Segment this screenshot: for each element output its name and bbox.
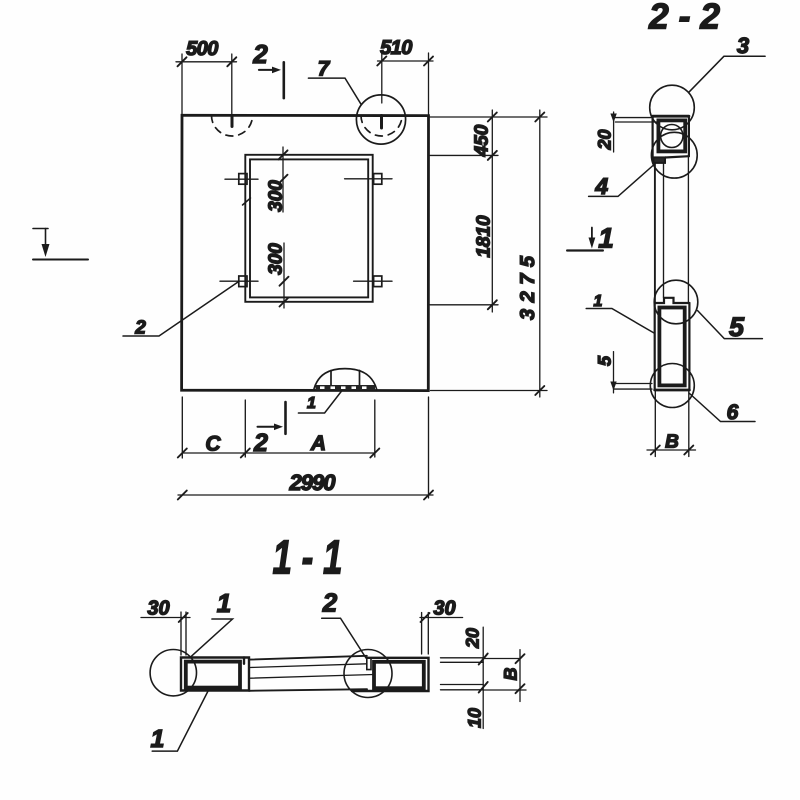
svg-text:B: B [501, 668, 521, 681]
svg-text:B: B [665, 431, 679, 452]
svg-text:3: 3 [737, 33, 749, 58]
label 5 with leader [698, 311, 763, 339]
dim 5 (section 2-2) [610, 352, 652, 393]
section marker 2 (top) [259, 62, 284, 98]
svg-text:1 - 1: 1 - 1 [273, 532, 343, 585]
dim 500 (top left) [176, 54, 237, 114]
label 2 (1-1) with leader [322, 618, 366, 658]
svg-text:500: 500 [186, 38, 218, 60]
svg-text:300: 300 [265, 243, 286, 275]
embed plate top-left [239, 174, 247, 185]
svg-text:4: 4 [594, 173, 608, 199]
svg-text:2: 2 [253, 429, 268, 457]
detail circle 7 [356, 95, 405, 144]
detail circle left end (1-1) [150, 650, 196, 696]
dim line B (1-1) [516, 650, 525, 702]
dim 30 left (1-1) [141, 612, 190, 655]
label 3 with leader [689, 56, 765, 92]
svg-text:5: 5 [729, 312, 745, 342]
detail circle 5 [654, 280, 698, 324]
detail circle 2 (1-1) [344, 650, 392, 698]
svg-text:1: 1 [307, 395, 316, 412]
svg-text:300: 300 [265, 180, 286, 212]
dim line 450/1810 [488, 110, 497, 312]
dim 300 top (opening) [279, 147, 288, 212]
dim 20 (section 2-2) [610, 112, 658, 152]
level mark symbol [33, 229, 88, 260]
extension pairs right (1-1) [441, 658, 527, 690]
centre line of embed top-right [345, 178, 392, 180]
label 1 bottom (1-1) with leader [152, 691, 208, 752]
section 1-1 right end box [352, 658, 429, 691]
embed plate top-right [374, 174, 382, 185]
svg-text:1: 1 [151, 725, 165, 753]
dim row C / A [178, 449, 379, 458]
svg-text:30: 30 [433, 597, 455, 619]
svg-text:1810: 1810 [474, 215, 495, 258]
detail circle 6 [650, 364, 694, 408]
break mark on opening left edge [243, 198, 251, 205]
svg-text:2: 2 [322, 588, 338, 618]
svg-text:510: 510 [380, 37, 412, 59]
svg-text:30: 30 [147, 597, 169, 619]
lifting loop right (dashed) [361, 116, 402, 137]
svg-text:2: 2 [134, 318, 146, 339]
section 2-2 top box (embed channel) [653, 116, 689, 163]
label 2 with leader (to embed) [123, 282, 238, 336]
label 1 with leader (2-2) [586, 309, 654, 333]
centre line of embed bottom-left [220, 280, 258, 282]
centre line of embed bottom-right [354, 280, 392, 282]
extension lines right side [430, 117, 547, 391]
svg-text:20: 20 [463, 628, 483, 649]
bottom extension lines [182, 397, 428, 498]
label 6 with leader [689, 393, 755, 422]
section marker 1 (in 2-2) [567, 228, 603, 251]
section marker 2 (bottom) [258, 402, 286, 434]
dim line 20/10 (1-1) [479, 627, 488, 728]
detail circle 4 [651, 132, 697, 178]
dim B (section 2-2) [647, 391, 696, 457]
svg-text:C: C [205, 432, 221, 455]
dim 2990 [178, 491, 433, 500]
centre line of embed top-left [225, 178, 258, 180]
label 4 with leader [589, 164, 655, 196]
svg-text:7: 7 [318, 57, 331, 80]
section 2-2 column faces [655, 158, 689, 304]
dim 30 right (1-1) [420, 613, 463, 655]
opening (inner rectangle, double line) [245, 155, 372, 302]
panel outline (plan view) [182, 115, 429, 390]
dim line 3275 [535, 110, 544, 397]
svg-text:10: 10 [465, 708, 485, 728]
svg-text:450: 450 [472, 124, 493, 157]
svg-text:1: 1 [598, 223, 614, 254]
dim 510 (top right) [377, 53, 433, 114]
label 1 with leader (bump) [298, 391, 342, 414]
drain bump at bottom edge [314, 369, 378, 391]
svg-text:1: 1 [217, 588, 231, 618]
embed plate bottom-right [374, 276, 382, 287]
lifting loop left (dashed) [212, 116, 253, 137]
svg-text:A: A [310, 432, 326, 455]
label 1 top (1-1) with leader [191, 619, 232, 656]
detail circle 3 [650, 85, 695, 130]
label 7 with leader [308, 78, 361, 104]
svg-text:2: 2 [252, 39, 268, 69]
embed plate bottom-left [239, 276, 247, 287]
svg-text:1: 1 [594, 293, 603, 310]
loop bar cross-section inside top box [661, 125, 683, 148]
svg-text:5: 5 [595, 355, 615, 366]
section 1-1 left end box [181, 658, 249, 691]
section 2-2 bottom box (embed channel) [655, 298, 690, 390]
dim 300 bottom (opening) [280, 243, 289, 308]
svg-text:20: 20 [595, 129, 615, 150]
svg-text:3275: 3275 [517, 255, 539, 320]
svg-text:2 - 2: 2 - 2 [648, 0, 720, 37]
section 1-1 middle slab lines [249, 656, 374, 691]
svg-text:6: 6 [727, 401, 739, 424]
svg-text:2990: 2990 [289, 470, 337, 495]
